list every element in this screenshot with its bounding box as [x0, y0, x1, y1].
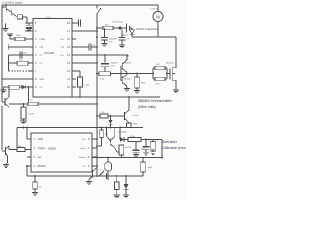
ground C17 — [143, 152, 149, 155]
svg-text:GND: GND — [38, 138, 44, 141]
wire to pin 1 — [25, 17, 27, 23]
svg-text:u1uF: u1uF — [84, 85, 90, 87]
capacitor C16 series — [106, 171, 108, 180]
wire pin8 to Vcc — [96, 138, 97, 140]
ground R18 — [150, 152, 156, 155]
wire bottom rail y176 — [27, 175, 143, 177]
svg-text:Calibration (error): Calibration (error) — [162, 146, 186, 150]
svg-text:min22k: min22k — [125, 147, 133, 149]
svg-text:Start fader: Start fader — [162, 140, 178, 144]
wire pin4 to bottom rail — [26, 166, 28, 176]
resistor R10 vertical to gnd — [21, 104, 26, 121]
resistor R4 supply — [97, 26, 127, 30]
wire gnd rail y127 — [17, 128, 143, 149]
svg-text:6..9V DC: 6..9V DC — [150, 8, 159, 10]
wire pin17 to supply — [76, 30, 97, 32]
svg-text:M: M — [156, 14, 160, 19]
ground R10 — [20, 121, 27, 124]
svg-text:868MHz-Teletransmitter: 868MHz-Teletransmitter — [138, 99, 173, 103]
resistor R7 parallel top — [153, 66, 167, 73]
battery BT1 9V — [127, 24, 133, 33]
wire pin7 dashed — [9, 70, 34, 72]
resistor R16 bottom — [114, 176, 119, 195]
svg-text:BD679: BD679 — [124, 62, 131, 64]
svg-text:CM: CM — [40, 47, 44, 49]
ground Q3 — [124, 89, 130, 92]
wire collector line y104 — [9, 103, 97, 105]
capacitor C17 electrolytic — [143, 140, 150, 153]
diode D3 to gnd — [108, 116, 112, 128]
transistor Q3 PNP driver — [121, 74, 127, 89]
wire pin9 to R9 — [28, 87, 30, 103]
svg-text:16V: 16V — [109, 42, 113, 44]
svg-text:+9V =: +9V = — [122, 34, 129, 37]
ground pin9 left — [1, 87, 7, 93]
resistor R18 fader — [151, 140, 156, 152]
transistor Q10 osc B — [12, 10, 18, 17]
svg-text:C.V: C.V — [82, 166, 86, 168]
transistor Q6 BC547 — [107, 128, 118, 153]
diode D2 flyback — [130, 28, 135, 37]
resistor R14 tx base — [97, 114, 125, 118]
switch S1 — [97, 8, 101, 14]
svg-text:GND: GND — [40, 79, 45, 81]
wire pin1 — [25, 22, 33, 24]
resistor R3 and diode D1 on pin9 — [4, 85, 34, 89]
resistor R12 555 timing — [97, 128, 103, 147]
wire pin13 to supply — [76, 62, 97, 64]
resistor R17 fader top — [124, 138, 162, 142]
resistor R6 base feed — [97, 72, 121, 76]
wire gate — [167, 73, 170, 75]
svg-text:BD680: BD680 — [124, 79, 131, 81]
svg-text:0.1uF: 0.1uF — [28, 114, 34, 116]
svg-text:0.22uF 63V: 0.22uF 63V — [112, 21, 124, 23]
wire emitter node to gate network — [121, 73, 153, 75]
ground MOSFET source — [173, 90, 179, 93]
svg-text:(Other units): (Other units) — [138, 105, 156, 109]
resistor R11 trigger — [9, 148, 31, 152]
svg-text:TDA1085: TDA1085 — [44, 52, 55, 55]
svg-text:25V: 25V — [111, 66, 115, 68]
svg-text:Disch: Disch — [80, 148, 86, 150]
wire pin14 supply line — [76, 54, 128, 56]
resistor R20 emitter load — [135, 74, 140, 91]
diode D5 fader — [120, 128, 124, 142]
node R10 top — [23, 103, 25, 105]
wire pin4 with terminal — [8, 44, 33, 50]
svg-text:100uF/: 100uF/ — [111, 62, 118, 64]
ground R20 — [134, 91, 140, 94]
switch S2 — [98, 171, 106, 177]
IC pin number labels — [34, 17, 96, 168]
resistor R15 tx emitter — [126, 123, 131, 128]
IC1 left pin stubs — [29, 23, 33, 87]
node pin9 junction — [28, 86, 30, 88]
ground R1 — [7, 34, 13, 35]
transistor Q2 NPN driver — [121, 55, 128, 81]
capacitor C4 on pin18 — [76, 20, 81, 27]
svg-text:L bzw: L bzw — [133, 115, 139, 117]
transistor Q8 bottom — [89, 166, 97, 182]
transistor Q4 MOSFET BUZ11 — [170, 67, 176, 91]
IC2 right pin stubs — [92, 139, 98, 166]
resistor R8 parallel bottom — [153, 74, 167, 81]
crystal X1 — [17, 15, 27, 19]
svg-text:NE555: NE555 — [48, 147, 56, 151]
resistor R2 on pin6 — [9, 61, 34, 65]
capacitor C2 on pin5 — [9, 52, 34, 59]
resistor R9 — [28, 102, 38, 106]
node dots — [23, 4, 168, 177]
svg-text:BUZ11a: BUZ11a — [166, 62, 175, 64]
op-amp IC1 motor controller — [33, 19, 72, 98]
ground Q8 — [86, 182, 92, 185]
capacitor C12 — [133, 140, 140, 155]
ground C7 — [102, 44, 108, 47]
wire mid rail y97 — [72, 96, 160, 98]
svg-text:Trigger: Trigger — [38, 147, 46, 150]
note start fader — [162, 140, 187, 150]
capacitor C7 electrolytic 2200u — [101, 28, 108, 44]
ground C8 — [119, 45, 125, 48]
svg-text:1M: 1M — [105, 134, 108, 136]
transistor Q5 lower left — [2, 146, 9, 164]
resistor R5 vertical — [76, 71, 82, 97]
ground osc caps — [26, 29, 32, 30]
transistor Q1 PNP left — [2, 87, 9, 107]
capacitor C6 on pin15 — [76, 44, 97, 51]
svg-text:BC546b: BC546b — [119, 132, 128, 134]
node supply junction — [118, 26, 121, 29]
node tx — [110, 115, 112, 117]
svg-text:m500: m500 — [133, 124, 139, 126]
node top rail osc — [5, 4, 7, 6]
ground R16 — [114, 195, 120, 198]
IC1 right pin stubs — [72, 23, 76, 87]
wire pin6 thresh long — [92, 157, 162, 159]
diode D4 bottom — [124, 176, 129, 195]
svg-text:RESET: RESET — [38, 165, 47, 168]
wire fader feedback — [161, 140, 163, 158]
svg-text:1N4007 freilaufdiode: 1N4007 freilaufdiode — [136, 28, 159, 31]
svg-text:out: out — [38, 156, 42, 159]
capacitor C8 — [119, 30, 126, 45]
ground C12 — [133, 155, 139, 158]
wire left rail — [1, 5, 3, 102]
resistor R13 emitter vertical — [117, 145, 124, 158]
svg-text:CK: CK — [61, 47, 65, 49]
wire top supply rail — [2, 4, 158, 6]
resistor R19 470k — [141, 158, 146, 177]
capacitor C14 oval electrolytic — [105, 158, 112, 177]
transistor Q7 tx — [125, 97, 130, 123]
ground Q5 — [3, 165, 9, 168]
svg-text:4.19 MHz Quarz: 4.19 MHz Quarz — [2, 0, 23, 4]
motor M1 — [153, 5, 163, 37]
IC2 left pin stubs — [27, 139, 31, 166]
svg-text:Thresh: Thresh — [79, 156, 87, 159]
timer IC2 NE555 — [31, 133, 92, 172]
note 868MHz transmitter — [138, 99, 173, 109]
resistor R1 on pin3 — [10, 34, 33, 41]
wire motor return — [132, 37, 176, 68]
transistor Q9 osc A — [2, 5, 12, 12]
ground oscillator — [3, 24, 9, 32]
wire join pin5 pin6 — [8, 55, 10, 71]
svg-text:PWM: PWM — [40, 39, 46, 41]
wire pin8 gnd — [2, 78, 33, 80]
wire left rail lower — [1, 106, 3, 150]
capacitor C15 bottom left — [33, 176, 37, 193]
wire pin1 to gnd rail — [26, 128, 28, 140]
svg-text:2200uF/: 2200uF/ — [109, 38, 117, 40]
capacitor C1 osc — [26, 23, 32, 29]
ground D4 — [123, 195, 129, 198]
capacitor C11 electrolytic 100u — [101, 55, 109, 72]
wire center vertical supply — [96, 5, 98, 176]
svg-text:IC70: IC70 — [46, 17, 51, 19]
ground C15 — [32, 193, 38, 196]
wire pin2 — [25, 30, 33, 32]
